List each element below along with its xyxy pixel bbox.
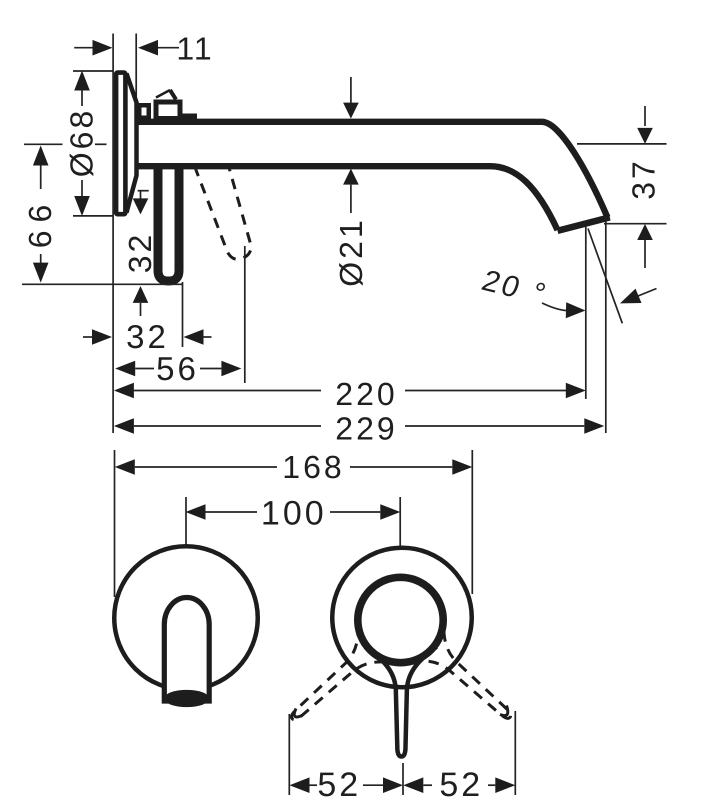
dim O68: bottom tick xyxy=(73,215,113,217)
dim 100: right extension line xyxy=(399,497,401,552)
cartridge large block xyxy=(156,102,180,119)
dim 168: left arrow xyxy=(115,459,135,475)
dim 56: left arrow xyxy=(115,361,135,377)
leader arrow right pointing at slanted line xyxy=(638,289,657,297)
dim 52 right: right arrow xyxy=(488,784,495,786)
dim O21: arrow up to tube bottom xyxy=(343,169,359,185)
escutcheon plate rim (side view) xyxy=(116,73,125,215)
dim 168: right arrow xyxy=(350,466,452,468)
dim 11: arrow pointing right to wall line xyxy=(74,47,93,49)
20 degree slanted stream reference line xyxy=(588,229,622,324)
wall line xyxy=(112,34,114,434)
spout tube bottom edge with inner bend xyxy=(136,166,558,230)
dim 11: arrow pointing left to cartridge face line xyxy=(138,40,158,56)
dim O21: arrow down to tube top xyxy=(350,77,352,104)
spout outlet opening (front view) xyxy=(164,690,210,707)
handle ring (front view) xyxy=(358,577,443,662)
extension line lever right edge xyxy=(182,282,184,347)
dim 37: arrow up xyxy=(637,224,653,240)
svg-text:56: 56 xyxy=(156,350,199,387)
handle stem dashed (rotated left position) xyxy=(269,612,405,745)
dim 32 horizontal: right arrow pointing left to lever edge xyxy=(184,329,204,345)
handle stem (front view, solid) xyxy=(366,647,437,757)
svg-text:220: 220 xyxy=(335,376,397,412)
handle lever (side view, solid) xyxy=(158,166,179,281)
dim 37: bottom reference line (outlet level) xyxy=(604,223,667,225)
dim 66: bottom arrow down xyxy=(33,263,49,283)
dim O68: bottom arrow down xyxy=(74,196,90,216)
svg-text:Ø68: Ø68 xyxy=(64,108,100,177)
dim O68: top arrow up xyxy=(74,71,90,91)
svg-text:Ø21: Ø21 xyxy=(333,217,369,286)
svg-text:37: 37 xyxy=(626,158,662,200)
dim 100: right arrow xyxy=(330,511,380,513)
cartridge small block xyxy=(139,105,149,118)
dim 66: top arrow up xyxy=(33,146,49,166)
dim 220: left arrow xyxy=(114,383,134,399)
escutcheon flange cone (side view) xyxy=(127,74,137,213)
dim 32 vertical: arrow up to lever tip line xyxy=(133,286,149,303)
dim 52 extension line right (lever tip) xyxy=(514,711,516,795)
dim 32 vertical: top tick xyxy=(138,190,149,192)
dim 66 bottom reference line (lever tip level) xyxy=(22,283,183,285)
dim 100: left arrow xyxy=(186,504,206,520)
dim 229: right arrow xyxy=(405,425,584,427)
svg-text:52: 52 xyxy=(317,766,361,804)
dim 52 left: left arrow xyxy=(290,777,310,793)
dashed lever tip cap right xyxy=(500,706,508,716)
tube centerline tick (left of plate) xyxy=(24,143,63,145)
dim 52 extension line left (lever tip) xyxy=(288,714,290,795)
svg-text:11: 11 xyxy=(176,31,213,67)
dim 32 horizontal: left arrow pointing right to wall xyxy=(83,336,93,338)
dim 52 left: right arrow xyxy=(363,784,383,786)
leader arrow from 20deg label to stream line xyxy=(542,303,566,311)
svg-text:52: 52 xyxy=(439,766,483,804)
dim 37: arrow down xyxy=(644,106,646,126)
left escutcheon circle (front view) xyxy=(114,546,258,690)
svg-text:168: 168 xyxy=(282,449,344,485)
dim 52 extension line center xyxy=(402,763,404,795)
svg-text:66: 66 xyxy=(22,197,58,249)
spout (front view) xyxy=(164,598,209,701)
dim 100: left extension line xyxy=(185,497,187,552)
dim 52 right: left arrow xyxy=(403,777,423,793)
dim 56: right arrow xyxy=(200,368,221,370)
extension line dashed lever tip xyxy=(244,246,246,383)
svg-text:32: 32 xyxy=(122,232,158,274)
handle lever pin tip (above cartridge) xyxy=(156,90,170,98)
spout tube top edge with outer bend xyxy=(136,122,608,218)
extension line for dim 11 at cartridge face xyxy=(135,34,137,101)
dim 168: right extension line xyxy=(471,450,473,594)
dim 37: top reference line (tube axis level at bend) xyxy=(577,143,667,145)
right escutcheon circle (front view) xyxy=(332,548,472,688)
water stream right line xyxy=(605,218,607,434)
cartridge base ledge xyxy=(181,114,197,122)
dim 32 vertical: arrow down to plate bottom level xyxy=(140,191,142,199)
water stream left line xyxy=(585,226,587,399)
svg-text:100: 100 xyxy=(261,495,327,533)
dim O68: top tick xyxy=(73,70,113,72)
handle lever (side view, dashed open position) xyxy=(190,143,263,263)
spout outlet end face xyxy=(558,217,610,231)
dim 229: left arrow xyxy=(114,418,134,434)
dim 168: left extension line xyxy=(114,450,116,597)
svg-text:229: 229 xyxy=(335,411,397,447)
dashed lever tip cap left xyxy=(294,709,302,717)
dim 220: right arrow xyxy=(405,390,566,392)
handle stem dashed (rotated right position) xyxy=(397,611,533,744)
